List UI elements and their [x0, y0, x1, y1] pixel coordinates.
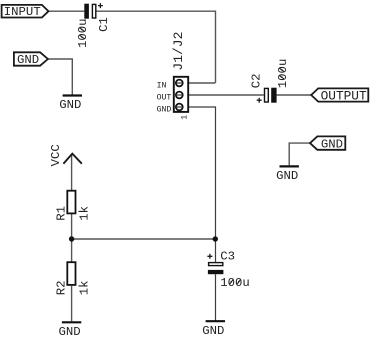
wire R1 to R2 [71, 213, 73, 262]
svg-text:100u: 100u [76, 18, 90, 48]
svg-text:IN: IN [157, 82, 167, 91]
flag OUTPUT [311, 88, 368, 103]
svg-text:C3: C3 [220, 249, 235, 263]
power VCC [49, 144, 82, 166]
capacitor C2 [250, 59, 290, 103]
wire VCC to R1 [71, 155, 73, 191]
resistor R2 [55, 262, 92, 295]
svg-text:1: 1 [181, 115, 190, 120]
svg-text:GND: GND [321, 137, 343, 151]
svg-text:GND: GND [59, 98, 81, 112]
pin IN [157, 80, 183, 91]
svg-text:VCC: VCC [49, 144, 63, 166]
flag GND left [14, 52, 48, 67]
wire GND pin down middle rail to C3 [179, 107, 215, 262]
wire INPUT to C1 [49, 10, 85, 12]
svg-text:1k: 1k [77, 206, 91, 221]
svg-text:R2: R2 [55, 280, 69, 295]
svg-text:GND: GND [59, 325, 81, 337]
svg-text:C1: C1 [97, 17, 111, 32]
connector J1/J2 [171, 32, 188, 112]
pin OUT [157, 92, 183, 103]
svg-text:1k: 1k [77, 280, 91, 295]
svg-text:100u: 100u [276, 59, 290, 89]
ground symbol top-left [59, 96, 82, 113]
svg-text:OUT: OUT [157, 94, 172, 103]
wire OUT pin to C2 [179, 94, 263, 96]
ground symbol right [276, 166, 299, 183]
flag GND right [310, 136, 345, 151]
svg-text:C2: C2 [250, 73, 264, 88]
wire C1 to node at x215 [97, 11, 216, 83]
svg-text:J1/J2: J1/J2 [171, 32, 186, 71]
wire R2 to ground [71, 286, 73, 322]
svg-text:GND: GND [17, 53, 39, 67]
wire GND flag right [289, 143, 310, 165]
svg-text:GND: GND [157, 106, 172, 115]
svg-text:OUTPUT: OUTPUT [321, 88, 367, 103]
flag INPUT [2, 5, 49, 19]
svg-text:100u: 100u [220, 276, 250, 290]
pin GND [157, 104, 183, 115]
wire GND flag left [48, 59, 72, 95]
svg-text:INPUT: INPUT [4, 5, 41, 19]
svg-text:R1: R1 [55, 206, 69, 221]
svg-text:GND: GND [202, 324, 224, 337]
resistor R1 [55, 191, 92, 221]
node junction dot left [69, 236, 74, 241]
node junction dot middle [213, 236, 218, 241]
wire to IN pin [179, 82, 215, 84]
wire C3 to ground [215, 274, 217, 321]
capacitor C1 [76, 3, 111, 48]
svg-text:GND: GND [276, 169, 298, 183]
capacitor C3 [207, 249, 249, 290]
wire divider node to C3 node [72, 238, 216, 240]
wire C2 to OUTPUT [277, 94, 312, 96]
ground symbol bottom-middle [202, 321, 225, 337]
ground symbol bottom-left [59, 322, 82, 337]
